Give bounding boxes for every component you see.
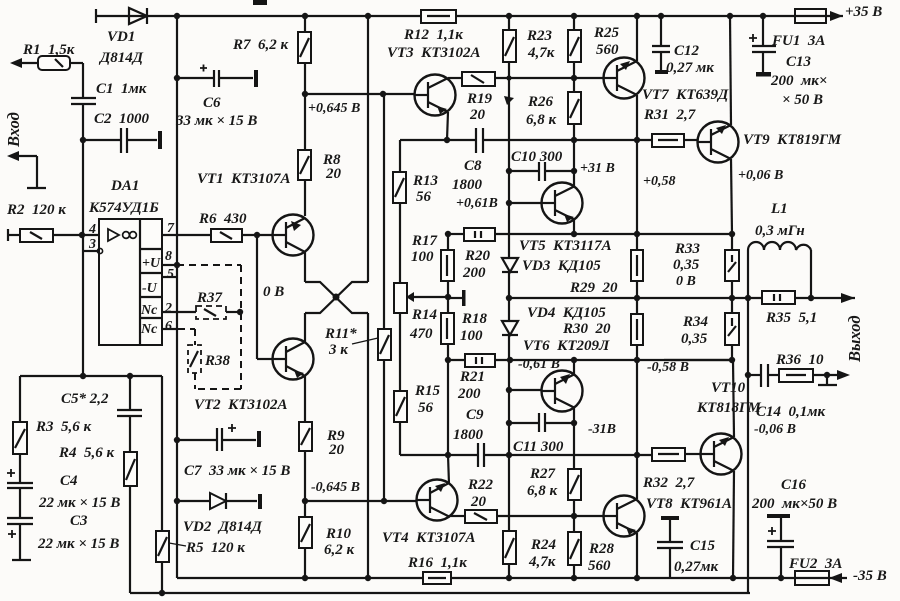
- resistor R18: [441, 298, 454, 455]
- capacitor C4: [7, 469, 33, 518]
- wire: crossover to bottom rail: [367, 313, 369, 578]
- node: VT4 emitter junction: [445, 452, 451, 458]
- wire: VT6 base: [509, 389, 542, 391]
- wire: VT3 base line: [305, 93, 415, 95]
- wire: VT3 emitter down: [447, 112, 448, 140]
- resistor R5: [156, 376, 186, 593]
- svg-text:C12: C12: [674, 43, 700, 59]
- capacitor C8: [447, 128, 652, 153]
- node: R14 wiper junction: [445, 294, 451, 300]
- svg-text:R15: R15: [414, 383, 441, 399]
- svg-text:R10: R10: [325, 526, 352, 542]
- resistor R9: [299, 376, 312, 501]
- svg-text:200: 200: [457, 386, 481, 402]
- node: -0,645V node: [302, 498, 308, 504]
- resistor R28: [568, 532, 581, 578]
- svg-text:C9: C9: [466, 407, 484, 423]
- capacitor C15: [657, 516, 683, 578]
- fuse FU1: [795, 9, 843, 23]
- svg-text:8: 8: [165, 249, 172, 264]
- svg-text:4: 4: [88, 222, 96, 237]
- wire: C8 line left to R13: [400, 139, 447, 141]
- capacitor C2: [83, 128, 162, 153]
- capacitor C12: [652, 16, 670, 74]
- svg-text:R7 6,2 к: R7 6,2 к: [232, 37, 289, 53]
- diode VD3: [502, 258, 518, 321]
- resistor R1: [38, 56, 70, 70]
- transistor VT2: [273, 339, 314, 380]
- node: +0,645V node: [302, 91, 308, 97]
- wire: +U supply vertical: [176, 16, 178, 578]
- svg-text:R3 5,6 к: R3 5,6 к: [35, 419, 92, 435]
- svg-text:R23: R23: [526, 28, 553, 44]
- svg-text:VD3 КД105: VD3 КД105: [522, 258, 601, 274]
- svg-text:20: 20: [470, 494, 487, 510]
- wire: R1 to C1/C2 node: [70, 62, 83, 64]
- node: R20 line junction: [445, 231, 451, 237]
- wire: VT1 base to VT2 base: [257, 235, 273, 359]
- ground: input ground terminal: [7, 151, 46, 188]
- svg-text:Nc: Nc: [140, 322, 158, 337]
- svg-text:0,27мк: 0,27мк: [674, 559, 719, 575]
- transistor VT4: [417, 480, 458, 521]
- svg-text:560: 560: [588, 558, 611, 574]
- wire: VT10 collector up: [733, 360, 734, 437]
- svg-text:VT7 КТ639Д: VT7 КТ639Д: [642, 87, 729, 103]
- wire: output vertical to C14 line: [747, 298, 749, 593]
- node: C11 right junction: [571, 420, 577, 426]
- node: R37 right junction: [237, 309, 243, 315]
- svg-text:20: 20: [328, 442, 345, 458]
- transistor VT7: [604, 58, 645, 99]
- svg-text:6,8 к: 6,8 к: [527, 483, 558, 499]
- svg-text:+0,61В: +0,61В: [456, 196, 498, 211]
- wire: VT3 base feedback vertical: [383, 94, 385, 329]
- wire: pin 6 stub: [162, 328, 178, 330]
- fuse FU2: [795, 571, 847, 585]
- svg-text:C11 300: C11 300: [513, 439, 564, 455]
- resistor R38 (dashed): [178, 329, 201, 389]
- transistor VT1: [273, 215, 314, 256]
- resistor R15: [394, 313, 407, 454]
- resistor R17: [441, 234, 454, 298]
- capacitor C16: [767, 514, 794, 578]
- node: R11 bottom junction: [381, 498, 387, 504]
- svg-text:R18: R18: [461, 311, 488, 327]
- svg-text:R6 430: R6 430: [198, 211, 247, 227]
- svg-text:R29 20: R29 20: [569, 280, 618, 296]
- svg-text:1800: 1800: [453, 427, 484, 443]
- resistor R35: [762, 291, 855, 304]
- svg-text:22 мк × 15 В: 22 мк × 15 В: [38, 495, 120, 511]
- svg-text:-35 В: -35 В: [853, 568, 887, 584]
- svg-text:C16: C16: [781, 477, 807, 493]
- svg-text:КТ818ГМ: КТ818ГМ: [696, 400, 762, 416]
- wire: crossover X: [305, 282, 368, 313]
- resistor R7: [298, 16, 311, 94]
- svg-text:FU1 3А: FU1 3А: [771, 33, 825, 49]
- svg-text:C2 1000: C2 1000: [94, 111, 150, 127]
- svg-text:R34: R34: [682, 314, 709, 330]
- svg-text:R33: R33: [674, 241, 701, 257]
- node: R25/R26 VT7 base junction: [571, 75, 577, 81]
- wire: VT9 collector to rail: [730, 16, 731, 125]
- resistor R4: [124, 452, 137, 593]
- svg-text:VT10: VT10: [711, 380, 746, 396]
- resistor R13: [393, 140, 406, 203]
- svg-text:R5 120 к: R5 120 к: [185, 540, 245, 556]
- svg-text:R35 5,1: R35 5,1: [765, 310, 817, 326]
- svg-text:R13: R13: [412, 173, 439, 189]
- node: crossover junction: [333, 294, 340, 301]
- wire: VT4 base line: [305, 500, 417, 502]
- node: VT8 base junction: [571, 513, 577, 519]
- svg-text:К574УД1Б: К574УД1Б: [88, 200, 159, 216]
- potentiometer R14: [394, 203, 448, 313]
- svg-text:+0,645 В: +0,645 В: [308, 101, 360, 116]
- svg-text:Вход: Вход: [4, 112, 23, 148]
- resistor R27: [568, 455, 581, 532]
- resistor R22: [450, 510, 605, 523]
- wire: VT9 emitter down: [731, 159, 732, 234]
- svg-text:3 к: 3 к: [328, 342, 348, 358]
- svg-text:VT1 КТ3107А: VT1 КТ3107А: [197, 171, 291, 187]
- resistor R2: [8, 229, 99, 242]
- wire: top edge artifact: [253, 0, 267, 5]
- svg-text:+35 В: +35 В: [845, 4, 882, 20]
- transistor VT10: [701, 434, 742, 475]
- svg-text:VT2 КТ3102А: VT2 КТ3102А: [194, 397, 288, 413]
- diode VD4: [502, 321, 518, 531]
- svg-text:20: 20: [325, 166, 342, 182]
- wire: current mark: [504, 96, 514, 105]
- resistor R21: [448, 354, 732, 367]
- svg-text:0,35: 0,35: [673, 257, 700, 273]
- svg-text:VT6 КТ209Л: VT6 КТ209Л: [523, 338, 610, 354]
- svg-text:C1 1мк: C1 1мк: [96, 81, 147, 97]
- svg-text:R11*: R11*: [324, 326, 357, 342]
- svg-text:C10 300: C10 300: [511, 149, 563, 165]
- svg-text:-U: -U: [142, 281, 158, 296]
- wire: VT1 collector to crossover: [304, 252, 306, 282]
- svg-text:R32 2,7: R32 2,7: [642, 475, 695, 491]
- svg-text:R26: R26: [527, 94, 554, 110]
- svg-text:-0,61 В: -0,61 В: [518, 357, 560, 372]
- capacitor C13: [749, 16, 776, 77]
- svg-text:33 мк × 15 В: 33 мк × 15 В: [175, 113, 257, 129]
- resistor R36: [779, 369, 843, 382]
- node: op-amp input junction: [79, 232, 85, 238]
- resistor R11*: [352, 329, 391, 501]
- node: rail junctions: [174, 13, 766, 19]
- resistor R37 (dashed): [196, 306, 240, 319]
- svg-text:0,27 мк: 0,27 мк: [666, 60, 714, 76]
- node: C8 node: [444, 137, 450, 143]
- svg-text:R31 2,7: R31 2,7: [643, 107, 696, 123]
- svg-text:FU2 3А: FU2 3А: [788, 556, 842, 572]
- node: output junction R33/R34: [729, 295, 735, 301]
- resistor R20: [448, 228, 732, 241]
- resistor R31: [652, 134, 698, 147]
- node: VT6 collector junction: [571, 357, 577, 363]
- ground: output ground stub: [818, 375, 837, 385]
- svg-text:VD4 КД105: VD4 КД105: [527, 305, 606, 321]
- capacitor C1: [71, 63, 96, 140]
- node: R36 output junction: [824, 372, 830, 378]
- node: VT1 base junction: [254, 232, 260, 238]
- svg-text:200 мк×: 200 мк×: [770, 73, 827, 89]
- wire: -0,58V line: [664, 359, 732, 361]
- wire: pin 8 stub: [162, 264, 177, 266]
- diode VD1: [129, 8, 147, 24]
- svg-text:6,2 к: 6,2 к: [324, 542, 355, 558]
- svg-text:0 В: 0 В: [676, 274, 696, 289]
- resistor R16: [423, 572, 451, 584]
- svg-text:2: 2: [164, 301, 172, 316]
- svg-text:C7 33 мк × 15 В: C7 33 мк × 15 В: [184, 463, 290, 479]
- wire: pin 7 to R6: [162, 234, 211, 236]
- wire: inverting input feed: [82, 140, 84, 376]
- resistor R29: [631, 250, 643, 298]
- resistor R8: [298, 94, 311, 216]
- node: C14 junction: [745, 372, 751, 378]
- svg-text:7: 7: [167, 221, 175, 236]
- capacitor C10: [509, 162, 574, 181]
- wire: VT4 emitter: [448, 455, 449, 484]
- svg-text:C6: C6: [203, 95, 221, 111]
- wire: R29/R30 column top: [636, 234, 638, 250]
- svg-text:R17: R17: [411, 233, 438, 249]
- svg-text:22 мк × 15 В: 22 мк × 15 В: [37, 536, 119, 552]
- svg-text:R38: R38: [204, 353, 231, 369]
- svg-text:DA1: DA1: [110, 178, 139, 194]
- node: R32 line junction: [634, 452, 640, 458]
- svg-text:R1 1,5к: R1 1,5к: [22, 42, 75, 58]
- transistor VT9: [698, 122, 739, 163]
- capacitor C7: [174, 424, 261, 451]
- svg-text:VT5 КТ3117А: VT5 КТ3117А: [519, 238, 612, 254]
- svg-text:R30 20: R30 20: [562, 321, 611, 337]
- svg-text:R25: R25: [593, 25, 620, 41]
- node: L1 right junction: [808, 295, 814, 301]
- node: R30 bottom junction: [634, 357, 640, 363]
- svg-text:56: 56: [416, 189, 432, 205]
- wire: VT2 collector up: [304, 313, 306, 342]
- wire: VT10 emitter down: [733, 471, 734, 578]
- svg-text:0,35: 0,35: [681, 331, 708, 347]
- svg-text:200 мк×50 В: 200 мк×50 В: [751, 496, 837, 512]
- svg-text:+0,06 В: +0,06 В: [738, 168, 783, 183]
- svg-text:-0,58 В: -0,58 В: [647, 360, 689, 375]
- svg-text:C4: C4: [60, 473, 78, 489]
- svg-text:4,7к: 4,7к: [528, 554, 556, 570]
- wire: outer bottom rail: [130, 590, 750, 596]
- capacitor C9: [400, 443, 652, 467]
- wire: VT6 collector up: [573, 360, 575, 374]
- node: C9 right junction: [506, 452, 512, 458]
- resistor R25: [568, 30, 581, 92]
- svg-text:R19: R19: [466, 91, 493, 107]
- svg-text:R24: R24: [530, 537, 557, 553]
- svg-text:C5* 2,2: C5* 2,2: [61, 391, 109, 407]
- svg-text:6: 6: [165, 319, 172, 334]
- resistor R10: [299, 501, 312, 578]
- svg-text:Nc: Nc: [140, 303, 158, 318]
- capacitor C5: [117, 376, 142, 452]
- wire: rail to crossover vertical: [367, 16, 369, 282]
- wire: VT3 collector to R19: [448, 77, 462, 79]
- svg-text:-31В: -31В: [588, 422, 616, 437]
- wire: output arrow: [841, 293, 855, 303]
- svg-text:C8: C8: [464, 158, 482, 174]
- node: VT6 base junction: [506, 387, 512, 393]
- resistor R33: [725, 234, 739, 298]
- node: VT5 collector junction: [571, 168, 577, 174]
- node: R21 left junction: [445, 357, 451, 363]
- node: VT5 base junction: [506, 200, 512, 206]
- node: C2 junction: [80, 137, 86, 143]
- svg-text:56: 56: [418, 400, 434, 416]
- svg-text:R36 10: R36 10: [775, 352, 824, 368]
- node: C10 left junction: [506, 168, 512, 174]
- resistor R34: [725, 298, 739, 360]
- resistor R24: [503, 531, 516, 578]
- svg-text:1800: 1800: [452, 177, 483, 193]
- resistor R26: [568, 92, 581, 171]
- transistor VT8: [604, 496, 645, 537]
- svg-text:C15: C15: [690, 538, 716, 554]
- svg-text:R12 1,1к: R12 1,1к: [403, 27, 463, 43]
- wire: pin 2 stub to R37: [162, 311, 196, 313]
- svg-text:+0,58: +0,58: [643, 174, 675, 189]
- wire: second output arrow: [837, 370, 850, 380]
- wire: R25/R26 column: [573, 16, 575, 30]
- svg-text:200: 200: [462, 265, 486, 281]
- node: R29 top junction: [634, 231, 640, 237]
- svg-text:C13: C13: [786, 54, 812, 70]
- svg-text:R14: R14: [411, 307, 438, 323]
- wire: C5 feedback line: [20, 373, 162, 379]
- node: feedback junction: [380, 91, 386, 97]
- wire: VT5 emitter down: [573, 220, 575, 234]
- svg-text:560: 560: [596, 42, 619, 58]
- node: VT7 emitter junction: [634, 137, 640, 143]
- node: VD4 line junction: [507, 357, 513, 363]
- capacitor C11: [509, 413, 574, 455]
- svg-text:R21: R21: [459, 369, 485, 385]
- resistor R3: [13, 376, 27, 483]
- wire: top +35V rail: [96, 9, 795, 23]
- svg-text:+31 В: +31 В: [580, 161, 615, 176]
- svg-text:+U: +U: [142, 256, 161, 271]
- wire: VT5 base: [509, 202, 542, 204]
- svg-text:20: 20: [469, 107, 486, 123]
- svg-text:R27: R27: [529, 466, 556, 482]
- svg-text:R22: R22: [467, 477, 494, 493]
- svg-text:Выход: Выход: [845, 315, 864, 363]
- wire: VT5 collector up: [573, 171, 575, 186]
- wire: input to R1: [10, 58, 38, 68]
- node: output junction R29/R30: [634, 295, 640, 301]
- svg-text:-0,645 В: -0,645 В: [311, 480, 360, 495]
- svg-text:VT4 КТ3107А: VT4 КТ3107А: [382, 530, 476, 546]
- svg-text:R16 1,1к: R16 1,1к: [407, 555, 467, 571]
- resistor R30: [631, 298, 643, 360]
- svg-text:4,7к: 4,7к: [527, 45, 555, 61]
- node: R23 bottom junction: [506, 75, 511, 80]
- svg-text:VT9 КТ819ГМ: VT9 КТ819ГМ: [743, 132, 842, 148]
- diode VD2: [174, 493, 262, 509]
- node: output line VD junction: [506, 295, 512, 301]
- node: L1 left junction: [745, 295, 751, 301]
- wire: pin 5 stub: [162, 276, 177, 278]
- op-amp DA1 К574УД1Б: [83, 219, 162, 345]
- svg-text:5: 5: [167, 267, 174, 282]
- node: VT9 emitter junction: [729, 231, 735, 237]
- node: R34 bottom junction: [729, 357, 735, 363]
- svg-text:R20: R20: [464, 248, 491, 264]
- svg-text:C3: C3: [70, 513, 88, 529]
- wire: R30 to VT8 collector line: [636, 360, 638, 455]
- resistor R12: [421, 10, 456, 23]
- wire: inner -35V rail: [177, 575, 795, 581]
- svg-text:VT8 КТ961А: VT8 КТ961А: [646, 496, 732, 512]
- capacitor C3: [7, 518, 33, 560]
- svg-text:VD1: VD1: [107, 29, 135, 45]
- svg-text:100: 100: [460, 328, 483, 344]
- svg-text:L1: L1: [770, 201, 788, 217]
- inductor L1: [748, 242, 811, 298]
- svg-text:R28: R28: [588, 541, 615, 557]
- wire: VT8 collector up: [636, 455, 638, 499]
- svg-text:Д814Д: Д814Д: [98, 50, 144, 66]
- node: VT5 emitter junction: [571, 231, 577, 237]
- node: C11 left junction: [506, 420, 512, 426]
- resistor R32: [652, 448, 701, 461]
- wire: output line: [509, 297, 762, 299]
- svg-text:6,8 к: 6,8 к: [526, 112, 557, 128]
- wire: VT7 collector to rail: [636, 16, 638, 61]
- svg-text:× 50 В: × 50 В: [782, 92, 823, 108]
- wire: VT6 emitter down: [573, 408, 575, 423]
- svg-text:3: 3: [88, 237, 96, 252]
- svg-text:R4 5,6 к: R4 5,6 к: [58, 445, 115, 461]
- resistor R23: [503, 16, 516, 258]
- wire: wiper stub terminal: [448, 290, 466, 306]
- svg-text:R2 120 к: R2 120 к: [6, 202, 66, 218]
- node: VD1/C6 junction: [174, 75, 180, 81]
- transistor VT6: [542, 371, 583, 412]
- node: pin8 +U junction: [174, 262, 180, 268]
- wire: dashed +U link: [177, 265, 241, 389]
- svg-text:VT3 КТ3102А: VT3 КТ3102А: [387, 45, 481, 61]
- resistor R6: [211, 229, 273, 242]
- svg-text:0 В: 0 В: [263, 284, 284, 300]
- capacitor C6: [177, 65, 258, 88]
- wire: VT8 emitter down: [636, 533, 638, 578]
- svg-text:VD2 Д814Д: VD2 Д814Д: [183, 519, 263, 535]
- svg-text:470: 470: [409, 326, 433, 342]
- capacitor C14: [748, 364, 779, 387]
- svg-text:100: 100: [411, 249, 434, 265]
- transistor VT5: [542, 183, 583, 224]
- svg-text:-0,06 В: -0,06 В: [754, 422, 796, 437]
- resistor R19: [462, 72, 605, 86]
- svg-text:R37: R37: [196, 290, 223, 306]
- svg-text:0,3 мГн: 0,3 мГн: [755, 223, 805, 239]
- node: R26 bottom junction: [571, 137, 577, 143]
- wire: VT7 emitter down: [636, 95, 638, 234]
